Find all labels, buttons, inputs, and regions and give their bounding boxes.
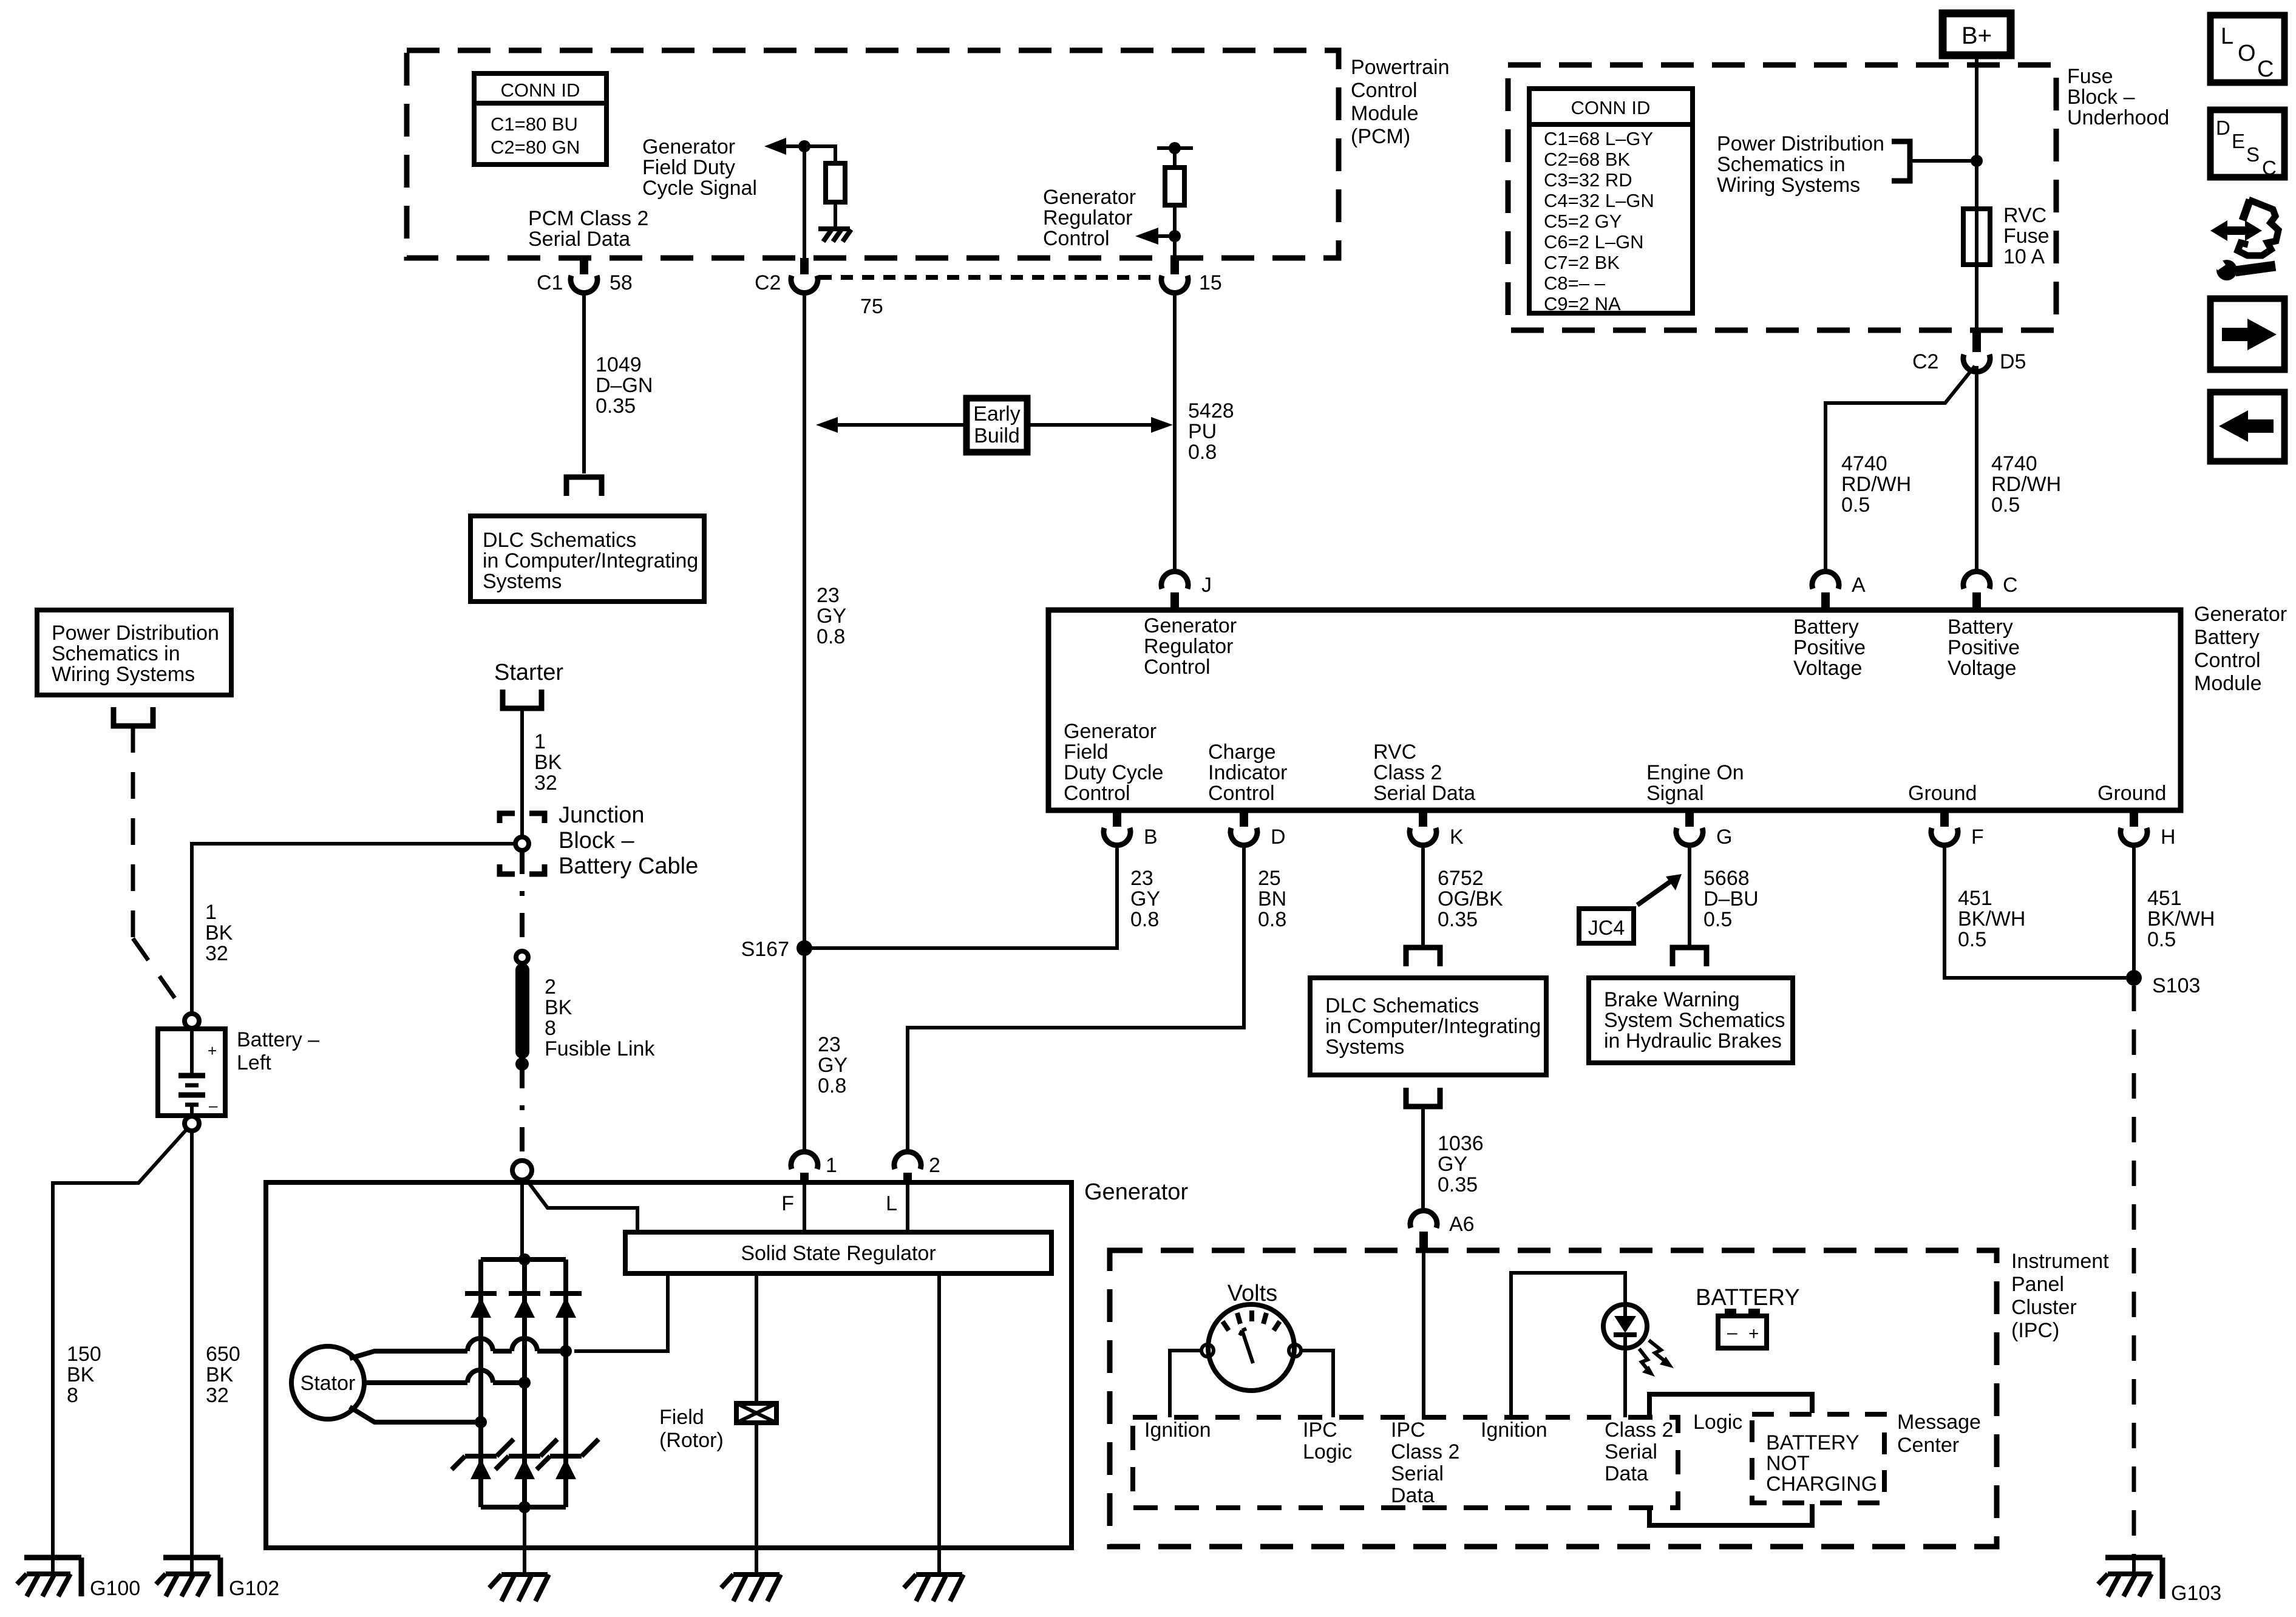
field (rotor) symbol [736,1403,776,1423]
wire: A6 to IPC logic [1422,1252,1425,1417]
wire: regulator to field [755,1273,758,1403]
svg-text:Serial: Serial [1391,1462,1444,1485]
svg-text:BATTERY: BATTERY [1766,1431,1860,1454]
svg-text:Systems: Systems [1325,1036,1404,1059]
svg-text:Positive: Positive [1793,636,1866,659]
wire 451 BK/WH: F to S103 [1944,844,2134,978]
svg-text:BK: BK [205,921,233,944]
svg-text:C2=80 GN: C2=80 GN [491,137,580,158]
arrow left (Generator Field Duty Cycle Signal) [764,138,804,155]
svg-text:C: C [2003,574,2018,597]
label: Message Center [1897,1411,1981,1457]
svg-text:C: C [2262,157,2277,179]
bracket below Starter [503,690,542,708]
svg-text:(PCM): (PCM) [1351,125,1410,148]
JC4 box with arrow [1579,874,1682,943]
stator phase wire 1 [350,1338,566,1358]
connector D (GBCM bottom) [1231,810,1286,849]
svg-text:Underhood: Underhood [2067,106,2169,129]
label: PCM Class 2 Serial Data [528,207,648,251]
svg-text:A: A [1852,574,1866,597]
stator phase wire 2 [364,1370,525,1383]
svg-text:H: H [2161,825,2176,849]
svg-text:G102: G102 [229,1577,279,1600]
box: DLC Schematics (middle) [1310,978,1546,1075]
svg-text:Systems: Systems [483,570,562,593]
svg-text:C2: C2 [755,271,781,294]
wire: R1 to internal ground [834,202,837,228]
svg-text:Generator: Generator [1144,614,1237,637]
svg-text:C2=68 BK: C2=68 BK [1544,149,1631,170]
svg-text:58: 58 [610,271,633,294]
label: Battery - Left [237,1028,319,1074]
svg-text:Control: Control [1144,656,1211,679]
node: phase 1 dot [560,1345,572,1357]
diode D5g (bottom middle, avalanche) [495,1439,557,1479]
label: Junction Block - Battery Cable [559,802,698,879]
wire: dash-dot junction block to fusible link [520,850,525,952]
svg-text:23: 23 [817,584,840,607]
svg-text:RVC: RVC [1373,741,1416,764]
svg-text:Power Distribution: Power Distribution [52,622,219,645]
svg-text:Data: Data [1391,1484,1435,1507]
svg-text:G: G [1716,825,1732,849]
svg-text:1: 1 [826,1154,837,1177]
wire 5428 PU: 15 down to J [1173,293,1177,571]
svg-text:in Computer/Integrating: in Computer/Integrating [483,549,698,572]
svg-text:2: 2 [545,975,556,998]
wire 1 BK 32: starter to junction block [520,708,524,838]
svg-text:0.8: 0.8 [818,1074,846,1097]
Early Build double arrow [816,417,1173,433]
svg-text:C4=32 L–GN: C4=32 L–GN [1544,190,1654,211]
wire 23 GY: C2 down to S167 and on to generator F [803,293,806,1152]
svg-text:Class 2: Class 2 [1373,761,1442,784]
svg-text:OG/BK: OG/BK [1438,887,1503,910]
svg-text:Control: Control [2194,649,2261,672]
svg-text:(IPC): (IPC) [2011,1319,2059,1342]
svg-text:Signal: Signal [1646,782,1704,805]
node: rail bottom dot [518,1501,531,1513]
CONN ID table (Fuse Block) [1529,89,1693,314]
svg-text:F: F [1971,825,1984,849]
diode D3 (top right) [550,1293,582,1318]
label: Logic [1693,1411,1742,1434]
connector A6 (IPC) [1410,1210,1475,1252]
svg-text:32: 32 [206,1384,229,1407]
svg-text:in Hydraulic Brakes: in Hydraulic Brakes [1604,1029,1782,1053]
svg-text:Stator: Stator [301,1372,356,1395]
svg-text:0.8: 0.8 [1258,908,1286,931]
icon: service tool (arrow + wrench) [2210,200,2278,280]
wire: dotted harness line C2 to 15 [820,275,1160,280]
svg-text:0.5: 0.5 [2147,928,2176,951]
svg-text:Class 2: Class 2 [1391,1440,1459,1463]
svg-text:C6=2 L–GN: C6=2 L–GN [1544,231,1644,253]
box: Power Distribution Schematics (left) [37,610,231,695]
label: Charge Indicator Control [1208,741,1287,805]
svg-text:32: 32 [205,942,228,965]
svg-text:Wiring Systems: Wiring Systems [52,663,195,686]
svg-text:C: C [2257,56,2274,82]
svg-text:0.5: 0.5 [1841,493,1870,517]
svg-text:+: + [208,1042,217,1060]
wire 4740 RD/WH right branch (to C) [1975,366,1978,571]
svg-text:D: D [1271,825,1286,849]
svg-text:23: 23 [818,1033,841,1056]
svg-text:Wiring Systems: Wiring Systems [1717,174,1860,197]
svg-text:Control: Control [1351,79,1418,102]
fusible link terminal circle [516,951,528,963]
junction block - battery cable (dashed corners) [500,813,545,874]
wire: gauge ipc logic [1301,1351,1333,1417]
Solid State Regulator box [625,1232,1051,1273]
svg-text:BK: BK [67,1363,95,1386]
svg-text:DLC Schematics: DLC Schematics [1325,994,1479,1017]
label: Generator Field Duty Cycle Signal [642,135,757,200]
icon: right arrow box [2210,299,2284,370]
wire: B+ down to fuse [1975,55,1978,330]
svg-text:Junction: Junction [559,802,645,828]
svg-text:D–GN: D–GN [596,374,653,397]
svg-text:NOT: NOT [1766,1452,1810,1475]
node: dot below fusible link [515,1057,529,1071]
ground (PCM internal) [818,229,851,242]
svg-text:+: + [1748,1324,1759,1344]
connector G (GBCM bottom) [1676,810,1732,849]
label: Power Distribution Schematics in Wiring Systems (fuse block) [1717,132,1884,197]
Instrument Panel Cluster dashed box [1110,1250,1997,1547]
svg-text:Engine On: Engine On [1646,761,1744,784]
wire: gauge ignition [1170,1351,1201,1417]
svg-text:Center: Center [1897,1434,1959,1457]
svg-text:Ignition: Ignition [1144,1419,1211,1442]
svg-text:0.35: 0.35 [1438,908,1478,931]
svg-text:GY: GY [817,605,846,628]
svg-text:0.8: 0.8 [1130,908,1159,931]
label: 4740 RD/WH 0.5 (right) [1991,452,2061,517]
svg-text:–: – [1727,1323,1737,1343]
svg-text:Ignition: Ignition [1481,1419,1547,1442]
svg-text:Logic: Logic [1693,1411,1742,1434]
connector F (GBCM bottom) [1931,810,1984,849]
wire 650 BK 32: battery to G102 [190,1131,194,1558]
svg-text:PCM Class 2: PCM Class 2 [528,207,648,230]
wire 25 BN: D to generator L [908,844,1244,1152]
arrow left (Generator Regulator Control) [1135,228,1175,245]
svg-text:650: 650 [206,1343,240,1366]
svg-text:23: 23 [1130,867,1153,890]
svg-text:JC4: JC4 [1588,917,1625,940]
ground (regulator) [904,1575,963,1601]
battery telltale icon [1718,1309,1767,1348]
node: phase 2 dot [518,1377,531,1389]
svg-text:C1=80 BU: C1=80 BU [491,114,578,135]
svg-text:Generator: Generator [642,135,735,158]
bracket above DLC box 2 [1406,947,1440,966]
label: Generator Battery Control Module [2194,603,2287,695]
wire: ring terminal to regulator [526,1179,637,1232]
svg-text:1036: 1036 [1438,1132,1484,1155]
wire: S103 dashed to G103 [2132,986,2136,1558]
wire: branch to resistor R1 [804,146,835,163]
diode D1 (top left) [465,1293,497,1318]
svg-text:15: 15 [1199,271,1222,294]
svg-text:G103: G103 [2171,1582,2221,1605]
svg-text:DLC Schematics: DLC Schematics [483,529,636,552]
svg-text:Logic: Logic [1303,1440,1352,1463]
svg-text:150: 150 [67,1343,101,1366]
label: 650 BK 32 [206,1343,240,1407]
diode D2 (top middle) [509,1293,540,1318]
svg-text:Brake Warning: Brake Warning [1604,988,1740,1011]
wire: F into regulator [803,1182,806,1232]
node S103 [2126,970,2200,997]
svg-text:Regulator: Regulator [1043,206,1132,229]
svg-text:C1=68 L–GY: C1=68 L–GY [1544,128,1653,149]
svg-text:BATTERY: BATTERY [1696,1285,1800,1310]
connector C2 pin 75 [755,258,883,318]
svg-text:Ground: Ground [2097,782,2166,805]
stator circle [291,1346,364,1419]
label: Field (Rotor) [659,1406,724,1452]
diode D6 (bottom right, avalanche) [537,1439,599,1479]
bracket pointer to B+ wire [1892,141,1973,181]
svg-text:CONN ID: CONN ID [1571,97,1651,118]
label: 23 GY 0.8 (B wire) [1130,867,1160,931]
wire 1049 D-GN: C1 down [582,293,586,473]
svg-text:(Rotor): (Rotor) [659,1429,724,1452]
Generator box [266,1182,1072,1548]
ground G103 [2098,1558,2221,1605]
wire: ignition to indicator [1511,1273,1625,1417]
logic callout outline [1649,1394,1812,1525]
icon: LOC box [2210,15,2284,83]
connector B (GBCM bottom) [1104,810,1158,849]
node: junction dot (regulator control) [1169,230,1181,242]
svg-text:Fuse: Fuse [2067,65,2113,88]
Generator Battery Control Module box [1048,610,2181,810]
label: 6752 OG/BK 0.35 [1438,867,1503,931]
svg-text:G100: G100 [90,1577,140,1600]
svg-text:Field: Field [659,1406,704,1429]
svg-text:IPC: IPC [1391,1419,1425,1442]
svg-text:Serial Data: Serial Data [1373,782,1475,805]
svg-text:Cycle Signal: Cycle Signal [642,177,757,200]
svg-text:IPC: IPC [1303,1419,1337,1442]
svg-text:BK/WH: BK/WH [2147,907,2215,931]
label: Volts [1228,1281,1277,1306]
wire: ring terminal to rectifier rail [520,1180,524,1259]
wire 5668 D-BU: G down [1688,844,1691,946]
icon: DESC box [2210,110,2284,179]
svg-text:C3=32 RD: C3=32 RD [1544,169,1632,191]
svg-text:0.5: 0.5 [1958,928,1986,951]
PCM label [1351,56,1450,148]
svg-text:A6: A6 [1449,1213,1475,1236]
svg-text:Schematics in: Schematics in [52,642,180,665]
svg-text:Indicator: Indicator [1208,761,1287,784]
svg-text:1: 1 [534,730,546,753]
svg-text:0.35: 0.35 [1438,1173,1478,1196]
wire 1 BK 32: junction block to battery [192,844,515,1014]
node: junction block terminal circle [515,837,529,850]
bracket below DLC box 2 [1406,1088,1440,1107]
svg-text:in Computer/Integrating: in Computer/Integrating [1325,1015,1541,1038]
generator ring terminal [512,1161,532,1180]
connector 2 (generator L) [894,1151,940,1182]
svg-text:Module: Module [1351,102,1419,125]
svg-text:B+: B+ [1961,22,1992,49]
svg-text:Battery: Battery [1948,615,2013,639]
ground G100 [17,1558,140,1600]
connector J (GBCM top) [1161,571,1212,610]
label: IPC Logic [1303,1419,1352,1463]
svg-text:GY: GY [1130,887,1160,910]
ground G102 [156,1558,279,1600]
connector A (GBCM top) [1812,571,1866,610]
wire: dashed to battery positive [133,726,187,1015]
wire: field to ground [755,1423,758,1575]
rectifier bridge rails [481,1259,566,1507]
svg-text:F: F [781,1192,794,1215]
svg-text:Positive: Positive [1948,636,2020,659]
label: 1 BK 32 (battery) [205,901,233,965]
svg-text:BK: BK [534,751,562,774]
svg-text:Fuse: Fuse [2003,225,2050,248]
svg-text:0.8: 0.8 [1188,441,1217,464]
wire: regulator internal ground run [937,1273,941,1575]
svg-text:Battery: Battery [2194,626,2260,649]
svg-text:4740: 4740 [1991,452,2037,475]
label: 1036 GY 0.35 [1438,1132,1484,1196]
svg-text:Control: Control [1064,782,1130,805]
svg-text:PU: PU [1188,420,1217,443]
node S167 [741,938,812,961]
label: Starter [494,660,563,685]
label: Class 2 Serial Data [1605,1419,1673,1485]
battery positive terminal circle [185,1014,199,1028]
node: dot on bar [1169,142,1181,154]
box: Brake Warning System Schematics [1589,978,1793,1063]
svg-text:C7=2 BK: C7=2 BK [1544,252,1620,273]
label: Generator [1084,1179,1188,1205]
connector pin 15 [1161,258,1222,294]
svg-text:B: B [1144,825,1158,849]
svg-text:Duty Cycle: Duty Cycle [1064,761,1163,784]
volts gauge [1201,1304,1301,1391]
svg-text:O: O [2238,41,2256,66]
label: 4740 RD/WH 0.5 (left) [1841,452,1911,517]
svg-text:RD/WH: RD/WH [1841,473,1911,496]
svg-text:1: 1 [205,901,217,924]
LED light arrows [1639,1340,1674,1377]
battery - left [158,1029,225,1116]
svg-text:S: S [2246,143,2260,166]
svg-text:8: 8 [545,1017,556,1040]
svg-text:0.35: 0.35 [596,395,636,418]
svg-text:Solid State Regulator: Solid State Regulator [741,1242,936,1265]
svg-text:BK: BK [545,996,572,1019]
svg-text:RD/WH: RD/WH [1991,473,2061,496]
svg-text:Power Distribution: Power Distribution [1717,132,1884,155]
svg-text:Control: Control [1208,782,1275,805]
label: RVC Class 2 Serial Data [1373,741,1475,805]
svg-text:5668: 5668 [1703,867,1750,890]
node: rail top dot [518,1253,531,1266]
svg-text:Block –: Block – [559,828,634,853]
wire: pin-15 internal with top bar [1157,148,1193,168]
svg-text:0.8: 0.8 [817,625,845,648]
svg-text:32: 32 [534,771,557,795]
svg-text:Field: Field [1064,741,1109,764]
label: 5668 D-BU 0.5 [1703,867,1759,931]
svg-text:6752: 6752 [1438,867,1484,890]
svg-text:S103: S103 [2152,974,2200,997]
label: 23 GY 0.8 (upper) [817,584,846,648]
wire 6752 OG/BK: K down [1421,844,1425,946]
svg-text:Field Duty: Field Duty [642,156,735,179]
connector K (GBCM bottom) [1410,810,1464,849]
svg-text:GY: GY [818,1054,847,1077]
bracket below Power Distribution box [114,707,153,726]
svg-text:Message: Message [1897,1411,1981,1434]
wire: L into regulator [906,1182,909,1232]
label: Generator Regulator Control [1043,186,1136,250]
wire: LED to class 2 [1623,1348,1627,1417]
svg-text:Generator: Generator [2194,603,2287,626]
stator phase wire 3 [350,1407,481,1422]
bracket above Brake box [1673,947,1707,966]
label: Generator Field Duty Cycle Control [1064,720,1163,805]
label: Ignition (volts) [1144,1419,1211,1442]
svg-text:4740: 4740 [1841,452,1887,475]
svg-text:D5: D5 [2000,350,2026,373]
label: 5428 PU 0.8 [1188,399,1234,464]
connector C2 D5 (fuse block output) [1912,330,2026,373]
svg-text:2: 2 [929,1154,940,1177]
label: Engine On Signal [1646,761,1744,805]
svg-text:75: 75 [860,295,883,318]
connector C (GBCM top) [1963,571,2018,610]
PCM module dashed box (Powertrain Control Module) [407,50,1339,258]
label: L [886,1192,897,1215]
diode D4 (bottom left, avalanche) [452,1439,514,1479]
label: BATTERY [1696,1285,1800,1310]
svg-text:Battery Cable: Battery Cable [559,853,698,879]
svg-text:C2: C2 [1912,350,1938,373]
svg-text:8: 8 [67,1384,78,1407]
svg-text:451: 451 [1958,887,1992,910]
svg-text:Left: Left [237,1051,271,1074]
svg-text:Battery –: Battery – [237,1028,319,1051]
svg-text:C1: C1 [537,271,563,294]
svg-text:C8=– –: C8=– – [1544,273,1606,294]
node: phase 3 dot [475,1416,487,1428]
wire: regulator to rectifier output [574,1273,668,1351]
ground (rectifier) [489,1575,549,1601]
indicator LED (BATTERY lamp) [1603,1304,1647,1348]
wire 23 GY: B to S167 [812,844,1117,948]
svg-text:10 A: 10 A [2003,245,2045,268]
svg-text:Generator: Generator [1064,720,1156,743]
CONN ID table (PCM) [474,73,606,164]
label: RVC Fuse 10 A [2003,204,2050,268]
label: Generator Regulator Control (GBCM internal) [1144,614,1237,679]
svg-text:Data: Data [1605,1462,1648,1485]
battery negative terminal circle [185,1116,199,1131]
wire 1036 GY: DLC to A6 [1421,1107,1425,1210]
